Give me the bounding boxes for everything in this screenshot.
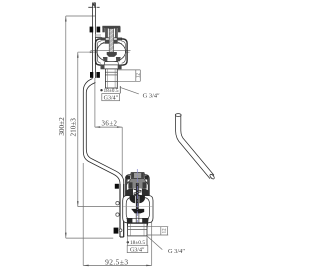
mounting square upper-right (97, 27, 101, 33)
dimension 92.5±3 horizontal line (83, 163, 152, 265)
bonnet corner block right (145, 176, 149, 180)
valve cap right lug (118, 27, 121, 33)
bent rod handle (175, 114, 215, 180)
dimension 12 (bottom pipe) (147, 227, 168, 235)
dimension 300±2 vertical line (66, 16, 113, 238)
valve rail arm top (96, 34, 102, 37)
dimension 92.5±3 arrows (83, 265, 152, 267)
mounting square lower-left B (114, 228, 119, 234)
outlet flange dark left (127, 223, 132, 229)
top valve centerline (78, 51, 130, 53)
rail extension line down to 36 dim (94, 78, 96, 97)
chamber lobe left (126, 198, 132, 220)
extension lines pipe to label (bottom) (128, 236, 147, 245)
bonnet side wall left (126, 180, 128, 196)
bottom valve assembly (cross-section) (123, 169, 153, 236)
chamber body (123, 196, 153, 223)
dimension 36±2 horizontal line (95, 97, 122, 177)
bonnet top nut (131, 172, 144, 178)
svg-text:12: 12 (163, 228, 168, 234)
valve cap cylinder (106, 28, 118, 38)
svg-text:12: 12 (136, 73, 141, 79)
bonnet corner block left (126, 176, 130, 180)
thread label G3/4 box (top) (102, 94, 120, 101)
valve neck (104, 62, 119, 65)
valve cap left lug (102, 27, 104, 33)
valve outlet pipe (105, 69, 117, 88)
valve ear right (121, 39, 127, 65)
valve seat left (103, 57, 108, 61)
stem guide dark right (139, 195, 145, 203)
thread label G3/4 box (bottom) (127, 245, 148, 252)
valve stem foot (107, 52, 117, 57)
rail top centerline tick (88, 6, 99, 8)
svg-text:210±3: 210±3 (70, 118, 78, 137)
spring housing dark mass right (142, 189, 149, 196)
leader G 3/4 (top) (120, 87, 139, 94)
packing gland (129, 179, 147, 189)
rail top arrow mark (93, 2, 95, 6)
thread label 18±0.5 (top) (100, 89, 102, 91)
bonnet inner dome (127, 180, 149, 195)
spring housing dark mass left (126, 189, 133, 196)
bonnet casing (125, 175, 149, 196)
valve outlet flange (101, 65, 121, 69)
connecting pipe (S-bend) (83, 79, 123, 238)
bracket small circle B (116, 213, 119, 216)
stem T foot (131, 209, 144, 214)
svg-text:18±0.5: 18±0.5 (103, 88, 118, 94)
svg-text:36±2: 36±2 (102, 121, 118, 128)
dimension 12 (top pipe) (117, 70, 140, 81)
valve rail arm bottom (96, 63, 100, 65)
chamber lobe right (143, 198, 149, 220)
top valve assembly (91, 26, 131, 88)
valve seat right (116, 57, 121, 61)
valve stem bottom (136, 183, 139, 210)
svg-text:300±2: 300±2 (58, 117, 66, 136)
valve cap top bar (102, 26, 120, 28)
valve ball chord line (101, 43, 122, 45)
bracket small circle A (116, 202, 119, 205)
thread label 18±0.5 (bottom) (127, 241, 129, 243)
valve bonnet flange (101, 38, 122, 40)
mounting rail (top bracket) (93, 3, 96, 79)
svg-text:92.5±3: 92.5±3 (105, 258, 128, 267)
bottom seat band (126, 217, 149, 219)
bottom valve bracket rails (120, 184, 124, 237)
dimension 210±3 arrows (77, 52, 79, 206)
valve ball centerline (91, 50, 131, 52)
stem guide dark left (130, 195, 136, 203)
mounting square lower-left A (115, 184, 119, 189)
dimension 300±2 arrows (65, 16, 67, 238)
valve body upper seal blocks (105, 40, 109, 44)
valve stem (hatched section) (109, 29, 113, 53)
spring coil (133, 188, 141, 199)
svg-text:G 3/4″: G 3/4″ (168, 248, 185, 255)
stem tip lines (136, 213, 139, 222)
svg-text:G3/4″: G3/4″ (130, 247, 145, 253)
valve body ball (97, 41, 126, 62)
rod top end cap (175, 114, 181, 117)
bracket small circle C (119, 229, 122, 232)
outlet pipe thread grooves (128, 227, 147, 230)
leader G 3/4 (bottom) (147, 236, 162, 250)
svg-text:G3/4″: G3/4″ (104, 96, 119, 102)
mounting square mid-left (90, 72, 93, 78)
pipe thread grooves (105, 72, 117, 81)
chamber centerline (123, 206, 153, 208)
outlet pipe (128, 223, 147, 236)
dimension 210±3 vertical line (78, 51, 120, 206)
outlet flange dark right (143, 223, 148, 229)
rod bottom end cap (209, 173, 215, 179)
valve ear left (96, 39, 102, 65)
valve vertical centerline (blue) (136, 169, 138, 223)
bonnet side wall right (147, 180, 149, 196)
mounting square mid-right (96, 72, 100, 78)
mounting square upper-left (90, 27, 94, 33)
valve cap cylinder dark sides (106, 28, 108, 38)
svg-text:G 3/4″: G 3/4″ (143, 92, 160, 99)
dimension 36±2 arrows (95, 126, 122, 128)
